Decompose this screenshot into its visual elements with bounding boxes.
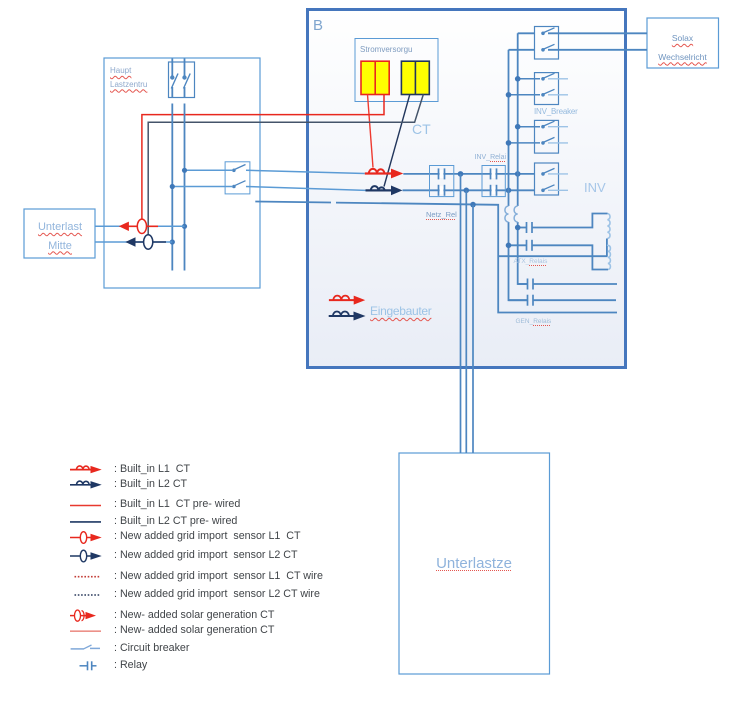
label Haupt Lastzentru: [110, 64, 147, 91]
wire: bus A vertical lower to ATX contact row: [518, 222, 527, 284]
breaker 4 (INV): [535, 163, 569, 195]
wire: neutral drop to Unterlastze: [472, 205, 474, 453]
legend built-in L2 CT: [70, 481, 102, 488]
node on left bus feeding L2 breaker row: [170, 184, 175, 189]
node on bus A at breaker2 pole1: [515, 76, 521, 82]
wire: Haupt left bus vertical: [171, 104, 173, 271]
wire: breaker1 pole2 to Solax: [548, 49, 647, 51]
legend text grid import sensor L1: [114, 531, 301, 542]
legend new grid import L2: [70, 550, 102, 562]
label B: [313, 18, 323, 34]
wire: common return row: [498, 255, 607, 257]
wire: bus A corner to breaker1: [518, 32, 535, 34]
ATX relay coil feed row 1: [515, 214, 608, 234]
label ATX_Relais: [514, 259, 548, 266]
Unterlast Mitte box: [24, 209, 95, 258]
legend text solar generation CT wire: [114, 625, 274, 636]
wire: Unterlast L2 line: [95, 241, 172, 243]
wire: bus B vertical lower to GEN contact row: [509, 222, 528, 300]
label Netz_Rel: [426, 211, 457, 219]
label INV: [584, 181, 606, 195]
breaker 1 (to Solax): [535, 27, 559, 60]
label Unterlastze: [399, 556, 549, 572]
legend circuit breaker: [71, 645, 100, 649]
node on right bus at Unterlast L1 tap: [182, 224, 187, 229]
wire: bus A vertical upper (x=517.7): [517, 33, 519, 206]
label INV_Breaker: [534, 108, 578, 116]
legend text solar generation CT: [114, 610, 274, 621]
INV_Relai relay box: [482, 166, 505, 197]
legend L2 pre-wired: [70, 521, 101, 523]
ATX relay coil feed row 2: [506, 240, 608, 270]
Haupt feeder breaker (middle): [172, 162, 250, 194]
legend L1 CT wire dotted: [75, 576, 101, 578]
legend text L1 CT wire: [114, 571, 323, 582]
inductor section on bus B: [505, 206, 509, 222]
wire: red pre-wired lead unit1 right cell, corner to Haupt: [142, 95, 384, 220]
wire: neutral feeder segment from Haupt: [255, 202, 331, 203]
legend built-in L1 CT symbol: [70, 466, 102, 473]
wire: coil2 top tie: [607, 244, 608, 246]
node on L2 row, tap to Unterlastze: [464, 188, 470, 194]
node on L2 row at bus B: [506, 188, 512, 194]
legend text L2 CT wire: [114, 589, 320, 600]
node on L1 row at bus A: [515, 171, 521, 177]
new grid import sensor L2 CT (navy ellipse + arrow): [125, 235, 166, 249]
wire: Haupt right bus vertical: [184, 104, 186, 271]
legend text L1 pre-wired: [114, 499, 240, 510]
relay coil 2: [608, 245, 610, 269]
legend new grid import L1: [70, 532, 102, 544]
label CT: [412, 122, 431, 137]
legend solar generation CT wire: [70, 630, 101, 632]
wire: bus B vertical upper (x=508.5): [508, 50, 510, 206]
label Solax Wechselricht: [647, 29, 718, 66]
node on bus B at breaker2 pole2: [506, 92, 512, 98]
box B enclosure: [308, 10, 626, 368]
inductor section on bus A: [514, 206, 518, 222]
legend text Built_in L1 CT: [114, 464, 190, 475]
legend text circuit breaker: [114, 643, 189, 654]
wire: coil1 bottom to row3: [606, 239, 608, 257]
Haupt Lastzentru box: [104, 58, 260, 288]
wire: red lead from CT unit1 left cell to built-in L1 CT: [368, 95, 374, 168]
wire: neutral feeder into B, down to GEN_Relais return: [336, 203, 617, 313]
wire: L1 feeder into B, slopes to CT: [246, 170, 365, 173]
Haupt main breaker (top): [169, 59, 195, 98]
built-in L2 CT (navy arcs + arrow): [366, 186, 403, 196]
legend text grid import sensor L2: [114, 550, 298, 561]
wire: L2 row across B: [403, 189, 535, 191]
built-in L1 CT (red arcs + arrow): [365, 169, 404, 179]
legend text relay: [114, 660, 147, 671]
legend L1 pre-wired: [70, 505, 101, 507]
legend relay: [80, 661, 97, 670]
label GEN_Relais: [516, 319, 552, 326]
label Stromversorgu: [360, 46, 412, 54]
Eingebauter built-in L1 CT symbol: [329, 296, 365, 305]
legend text Built_in L2 CT: [114, 479, 187, 490]
relay coil 1: [608, 214, 611, 239]
Solax Wechselricht box: [647, 18, 719, 68]
CT power supply unit 2 (navy, L2): [401, 61, 429, 94]
Netz_Rel relay box: [430, 166, 454, 197]
wire: breaker1 pole1 to Solax: [548, 32, 647, 34]
breaker 3: [509, 120, 569, 153]
label Unterlast Mitte: [30, 218, 90, 255]
breaker 2: [509, 73, 569, 105]
new grid import sensor L1 CT (red ellipse + arrow): [119, 219, 158, 233]
label Eingebauter: [370, 305, 431, 318]
label INV_Relai: [475, 154, 507, 161]
ATX relay contact row 1: [518, 279, 617, 290]
Eingebauter built-in L2 CT symbol: [329, 312, 366, 321]
node on L1 row, tap to Unterlastze: [458, 171, 464, 177]
Stromversorgu box: [355, 39, 438, 102]
node on neutral feeder, tap to Unterlastze: [470, 202, 476, 208]
wire: navy pre-wired lead unit2 right cell, corner to Haupt: [148, 95, 423, 236]
wire: L2 feeder into B, slopes to CT: [246, 187, 366, 191]
legend text L2 pre-wired: [114, 516, 237, 527]
wire: navy lead from CT unit2 left cell to built-in L2 CT: [384, 95, 410, 187]
wire: bus B corner to breaker1: [509, 49, 535, 51]
wire: L2 drop to Unterlastze: [465, 190, 467, 453]
CT power supply unit 1 (red, L1): [361, 61, 389, 94]
node on bus A at breaker3 pole1: [515, 124, 521, 130]
wire: L1 drop to Unterlastze: [460, 174, 462, 453]
legend solar generation CT: [70, 610, 96, 621]
wire: L1 row across B: [403, 173, 534, 175]
Unterlastze box: [399, 453, 550, 674]
node on left bus at Unterlast L2 tap: [170, 239, 175, 244]
node on right bus feeding L1 breaker row: [182, 168, 187, 173]
ATX relay contact row 2: [509, 295, 617, 306]
wire: Unterlast L1 line: [95, 225, 185, 227]
legend L2 CT wire dotted: [75, 594, 101, 596]
node on bus B at breaker3 pole2: [506, 140, 512, 146]
